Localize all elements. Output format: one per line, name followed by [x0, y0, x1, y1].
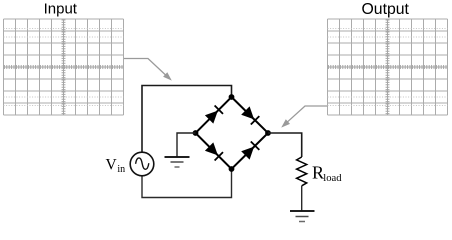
wire from source top around to bridge top vertex: [142, 86, 232, 153]
diode D1 (left vertex to top vertex): [205, 106, 223, 124]
diode D4 (bottom vertex to right vertex): [241, 142, 259, 160]
svg-text:load: load: [323, 173, 342, 184]
callout arrow from Input display to top wire: [124, 59, 172, 81]
node at bridge bottom vertex: [229, 166, 235, 172]
callout arrow from Output display to output node: [281, 106, 327, 128]
sine symbol inside source: [136, 158, 149, 169]
svg-text:Input: Input: [44, 0, 78, 17]
oscilloscope grid (Input display): [4, 19, 124, 115]
wire from left vertex to ground: [177, 133, 196, 156]
wire from resistor to ground: [301, 186, 303, 210]
resistor Rload: [297, 157, 307, 186]
svg-text:Output: Output: [362, 1, 410, 18]
node at bridge top vertex: [229, 94, 235, 100]
ground symbol below load: [290, 211, 315, 222]
diode D2 (top vertex to right vertex): [241, 106, 259, 124]
wire from source bottom around to bridge bottom vertex: [142, 169, 232, 198]
svg-text:in: in: [117, 164, 125, 175]
diode D3 (left vertex to bottom vertex): [205, 142, 223, 160]
svg-text:R: R: [312, 162, 324, 182]
ground symbol at bridge left: [165, 157, 190, 167]
svg-text:V: V: [106, 156, 118, 173]
AC source V1: [130, 152, 154, 176]
node at bridge right vertex: [265, 130, 271, 136]
wire from right vertex to load resistor: [268, 133, 302, 157]
node at bridge left vertex: [193, 130, 199, 136]
oscilloscope grid (Output display): [328, 19, 448, 115]
bridge diamond wiring: [196, 97, 269, 169]
